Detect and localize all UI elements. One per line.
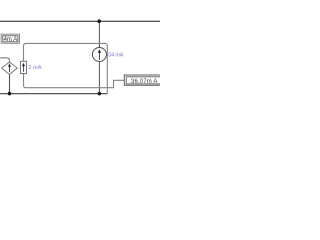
node junction dot bottom right bbox=[98, 92, 102, 96]
wire box bottom lead to ammeter bbox=[24, 74, 125, 88]
dependent source (diamond CCCS) bbox=[2, 62, 18, 74]
ammeter display box 36.07m A bbox=[124, 75, 162, 85]
svg-text:36.07m A: 36.07m A bbox=[131, 79, 158, 85]
svg-text:04 mA: 04 mA bbox=[108, 53, 123, 59]
wire top bus bbox=[0, 20, 160, 22]
wire left branch from edge bbox=[0, 58, 10, 62]
node junction dot bottom left bbox=[8, 92, 12, 96]
svg-text:2 mA: 2 mA bbox=[28, 65, 42, 71]
current source box element bbox=[21, 61, 27, 73]
background bbox=[0, 0, 160, 120]
ammeter display box 4mA bbox=[1, 34, 19, 43]
wire diamond bottom lead bbox=[9, 74, 11, 93]
wire loop: box top lead, top horizontal, right vertical bbox=[24, 43, 108, 93]
current source I1 (circle) bbox=[92, 48, 106, 62]
svg-text:4m A: 4m A bbox=[4, 37, 18, 43]
node junction dot top bbox=[97, 19, 101, 23]
wire bottom bus bbox=[0, 93, 107, 95]
wire main vertical branch bbox=[98, 21, 100, 93]
